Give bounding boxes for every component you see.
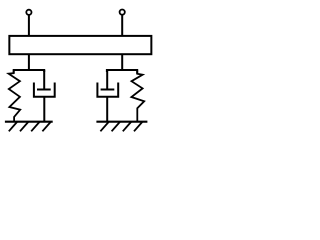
wire: left hanger stem [28, 54, 30, 70]
ground G2 hatch 4 [134, 122, 142, 131]
pin circle P2 [120, 10, 125, 15]
wire: left pin stem [28, 15, 30, 36]
damper C1 rod lower (left) [43, 97, 45, 122]
damper C2 rod lower (right) [106, 97, 108, 122]
ground G2 hatch 1 [100, 122, 108, 131]
damper C1 cup (left) [34, 83, 55, 97]
beam mass M (rigid bar) [9, 36, 151, 54]
wire: right hanger stem [121, 54, 123, 70]
ground G2 hatch 3 [123, 122, 131, 131]
ground G1 hatch 2 [20, 122, 28, 131]
damper C2 cup (right) [97, 83, 118, 97]
damper C1 piston (left) [37, 89, 51, 91]
ground G2 line (right) [96, 121, 147, 123]
spring K2 (right) [131, 70, 144, 122]
ground G1 hatch 1 [9, 122, 17, 131]
ground G1 hatch 3 [31, 122, 39, 131]
ground G1 line (left) [5, 121, 53, 123]
damper C1 rod upper (left) [43, 70, 45, 90]
wire: right pin stem [121, 15, 123, 36]
spring K1 (left) [9, 70, 21, 122]
damper C2 piston (right) [101, 89, 115, 91]
pin circle P1 [26, 10, 31, 15]
damper C2 rod upper (right) [106, 70, 108, 90]
ground G2 hatch 2 [112, 122, 120, 131]
ground G1 hatch 4 [42, 122, 50, 131]
wire: left T-bar [14, 70, 45, 73]
wire: right T-bar [107, 70, 137, 74]
